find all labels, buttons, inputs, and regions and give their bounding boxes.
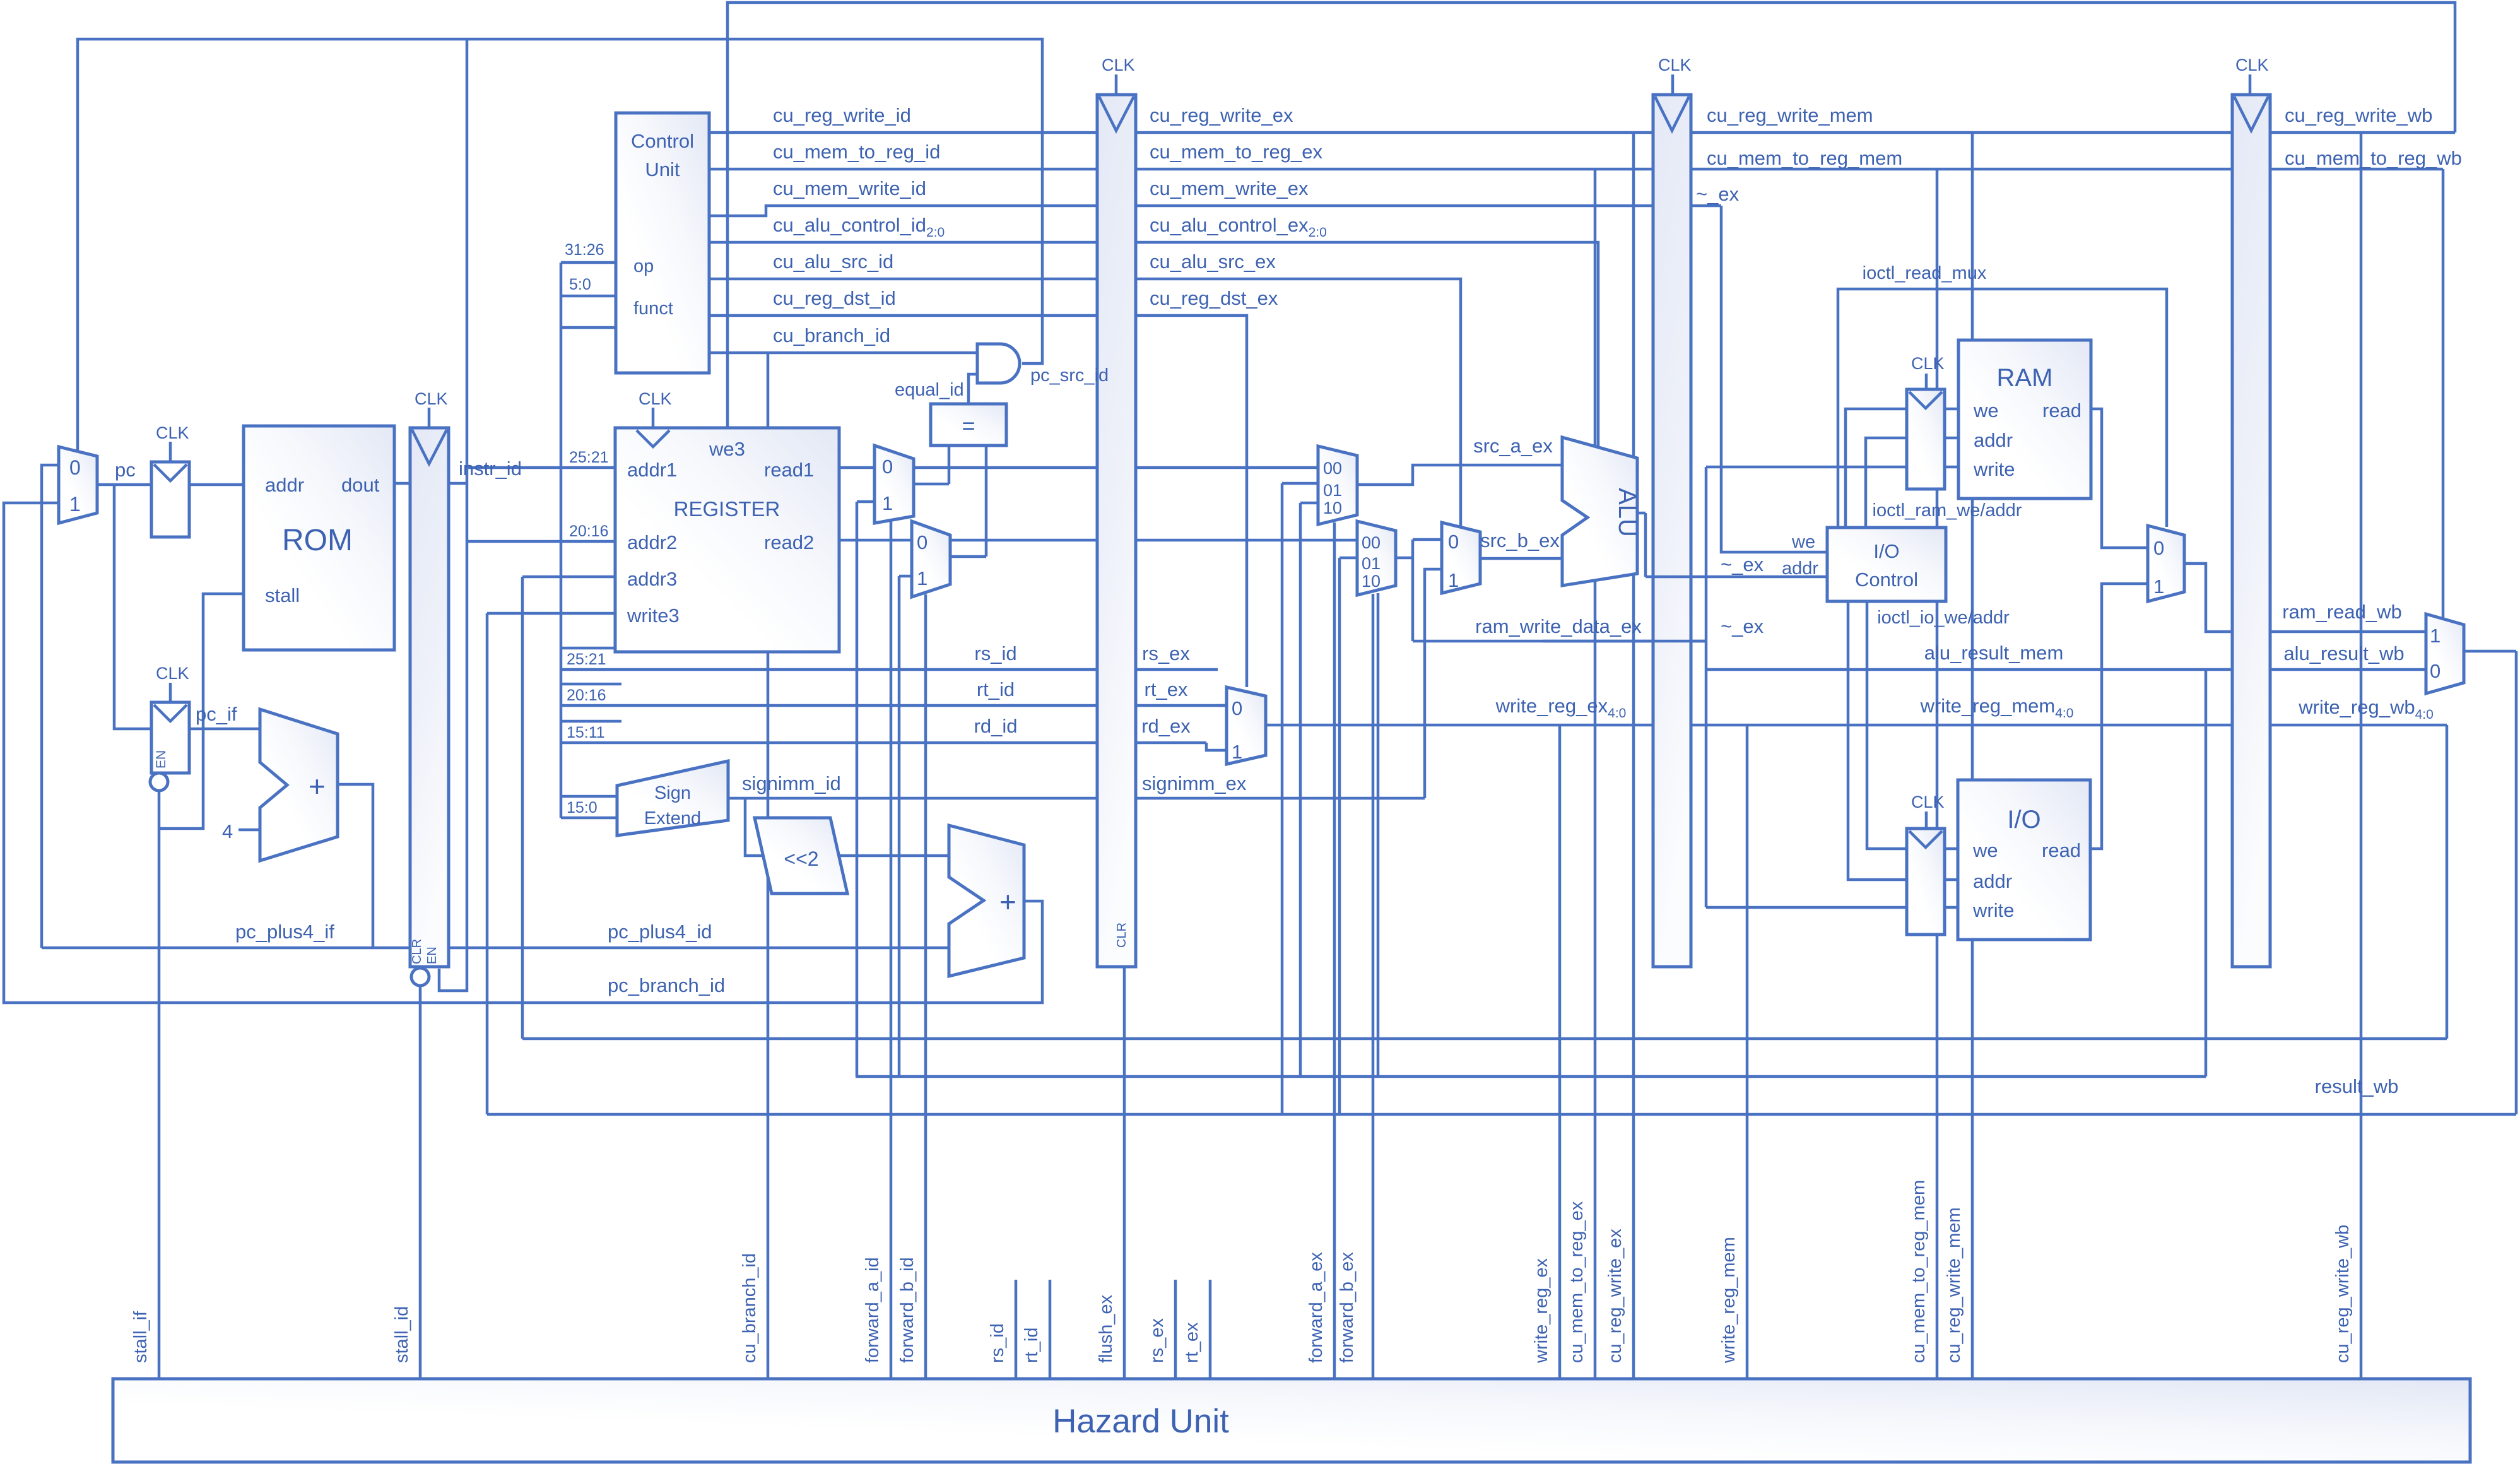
shift left 2 (755, 818, 847, 894)
svg-text:read: read (2042, 839, 2081, 861)
svg-text:Extend: Extend (644, 808, 701, 829)
svg-text:Sign: Sign (654, 783, 691, 803)
svg-text:cu_alu_control_ex2:0: cu_alu_control_ex2:0 (1150, 214, 1327, 240)
svg-text:alu_result_wb: alu_result_wb (2283, 642, 2404, 664)
svg-text:15:11: 15:11 (567, 724, 605, 741)
wire fwd mux A input 10 riser (1300, 503, 1318, 1077)
svg-text:ioctl_io_we/addr: ioctl_io_we/addr (1877, 608, 2010, 628)
wire ioctl mux output to MEM/WB (2184, 563, 2232, 632)
svg-text:forward_b_ex: forward_b_ex (1337, 1252, 1357, 1363)
svg-text:rd_id: rd_id (974, 715, 1018, 737)
ioctl read mux (2148, 526, 2184, 601)
wire I/O read to ioctl mux 1 (2090, 584, 2148, 849)
svg-text:CLK: CLK (1911, 793, 1945, 811)
wire cu_mem_write_mem drop to I/O Control we (1721, 206, 1827, 552)
svg-text:CLK: CLK (2235, 56, 2269, 74)
svg-text:rt_id: rt_id (1022, 1328, 1042, 1363)
I/O (1958, 780, 2090, 940)
svg-text:01: 01 (1362, 554, 1381, 573)
svg-text:RAM: RAM (1997, 364, 2053, 392)
wire write3 stub and result_wb riser (487, 613, 615, 1114)
svg-text:we: we (1972, 839, 1998, 861)
wire addr3 stub and write_reg_wb riser (522, 577, 615, 1039)
wire src_b row (mux2 out to fwd mux B) (950, 539, 1357, 542)
wire shift left 2 output to branch adder (839, 854, 949, 858)
svg-text:pc_plus4_id: pc_plus4_id (608, 921, 712, 943)
svg-text:addr2: addr2 (627, 531, 677, 553)
wire instr bus riser / pc_src to IF/ID CLR (439, 39, 467, 991)
svg-text:4: 4 (222, 820, 233, 842)
ROM (244, 426, 394, 650)
svg-text:cu_reg_write_wb: cu_reg_write_wb (2333, 1225, 2353, 1363)
wire cu_mem_to_reg row (709, 168, 2443, 171)
wire cu_reg_write row (id/ex/mem/wb) (709, 131, 2455, 134)
svg-text:result_wb: result_wb (2315, 1075, 2399, 1097)
svg-text:1: 1 (917, 567, 927, 589)
svg-text:EN: EN (154, 750, 168, 769)
wire cu_reg_write_wb loop to we3 (727, 3, 2455, 428)
svg-text:stall: stall (265, 584, 300, 606)
id forward mux 1 (874, 445, 914, 523)
wire rs_id hazard stub (1015, 1280, 1018, 1379)
wire bitfield column (560, 263, 563, 818)
wire forward_b_ex select riser (1372, 594, 1375, 1379)
svg-text:src_a_ex: src_a_ex (1473, 435, 1553, 457)
svg-text:pc_src_id: pc_src_id (1030, 365, 1109, 386)
svg-text:write: write (1972, 899, 2014, 921)
svg-text:cu_reg_write_ex: cu_reg_write_ex (1150, 104, 1293, 126)
svg-text:read2: read2 (764, 531, 814, 553)
ex forward mux A (1318, 446, 1357, 524)
wire funct tap 5:0 (561, 296, 616, 327)
svg-text:cu_mem_to_reg_ex: cu_mem_to_reg_ex (1150, 141, 1322, 163)
pc_if register (150, 664, 189, 791)
svg-text:rt_id: rt_id (977, 678, 1015, 700)
wire ioctl io addr (1848, 601, 1958, 880)
svg-text:cu_mem_to_reg_mem: cu_mem_to_reg_mem (1707, 147, 1902, 169)
svg-text:stall_if: stall_if (131, 1311, 151, 1363)
wire read1 to id fwd mux1 (839, 466, 874, 469)
svg-text:Control: Control (1855, 569, 1918, 591)
svg-text:I/O: I/O (1873, 540, 1899, 562)
wire write_reg_ex/mem row (1266, 724, 2232, 727)
wire cu_alu_src row (709, 279, 1461, 527)
svg-text:rs_ex: rs_ex (1142, 642, 1190, 664)
wire rt_id row (561, 684, 1227, 705)
wire pc net (97, 483, 244, 487)
pipeline register MEM/WB (2232, 95, 2270, 967)
svg-text:forward_a_ex: forward_a_ex (1306, 1252, 1326, 1363)
svg-text:rs_id: rs_id (974, 642, 1016, 664)
svg-text:cu_branch_id: cu_branch_id (773, 324, 890, 346)
wire id mux1 input1 riser (857, 502, 874, 1077)
wire pc+4 adder output / pc_plus4_if row (42, 784, 410, 948)
svg-text:ioctl_ram_we/addr: ioctl_ram_we/addr (1873, 500, 2022, 521)
wire alu_result_mem feedback row (856, 1075, 2206, 1078)
svg-text:=: = (962, 413, 975, 439)
svg-text:20:16: 20:16 (569, 522, 609, 540)
wire cu_reg_write_ex riser to hazard (1632, 133, 1635, 1379)
wire equal_id to AND gate (969, 374, 977, 404)
wire pc tap to pc_if register (114, 485, 151, 729)
wire 15:0 tap to sign extend (561, 796, 621, 818)
wire ram_write_data row through EX/MEM (1543, 640, 1706, 643)
wire pc_plus4_if riser to pc mux 0 (42, 465, 59, 948)
wire cu_mem_write row (709, 206, 1721, 216)
svg-text:rs_id: rs_id (987, 1323, 1008, 1363)
wire alu_result_mem row (1706, 668, 2232, 671)
svg-text:CLR: CLR (410, 939, 424, 964)
AND gate pc_src (977, 344, 1020, 383)
wire ALU output corner (1637, 513, 1646, 577)
wire signimm row (728, 797, 1425, 800)
wire cu_branch row (709, 351, 977, 355)
svg-text:00: 00 (1362, 533, 1381, 552)
svg-text:pc_if: pc_if (196, 703, 237, 725)
svg-text:signimm_ex: signimm_ex (1142, 772, 1247, 794)
svg-text:25:21: 25:21 (567, 651, 606, 668)
svg-text:addr: addr (1782, 558, 1818, 579)
svg-text:write: write (1973, 458, 2015, 480)
svg-text:REGISTER: REGISTER (674, 497, 780, 521)
svg-text:cu_mem_write_id: cu_mem_write_id (773, 177, 926, 199)
svg-text:cu_mem_to_reg_id: cu_mem_to_reg_id (773, 141, 940, 163)
svg-text:alu_result_mem: alu_result_mem (1924, 642, 2064, 664)
src_b mux (1442, 522, 1480, 593)
wire cu_mem_to_reg_mem riser to hazard (1936, 169, 1939, 1379)
wire write_reg_wb row and drop (2270, 725, 2447, 1039)
wire mux1 tap to equality (914, 445, 949, 484)
pc mux (59, 447, 97, 523)
svg-text:~_ex: ~_ex (1696, 183, 1740, 205)
svg-text:funct: funct (633, 298, 673, 319)
svg-text:read1: read1 (764, 459, 814, 481)
svg-text:write_reg_ex: write_reg_ex (1531, 1258, 1551, 1364)
wire id mux2 input1 riser (899, 576, 912, 1077)
wire write_reg_ex riser to hazard (1558, 725, 1562, 1379)
svg-text:CLK: CLK (1658, 56, 1692, 74)
svg-text:equal_id: equal_id (895, 380, 964, 400)
equality comparator (931, 404, 1006, 445)
svg-text:op: op (633, 256, 654, 276)
svg-text:rs_ex: rs_ex (1147, 1318, 1167, 1363)
svg-text:write_reg_ex4:0: write_reg_ex4:0 (1495, 695, 1627, 721)
svg-text:0: 0 (2430, 660, 2441, 682)
svg-text:we: we (1791, 532, 1815, 552)
svg-text:cu_reg_dst_ex: cu_reg_dst_ex (1150, 287, 1278, 309)
svg-text:src_b_ex: src_b_ex (1480, 529, 1560, 552)
wire fwd mux A output to ALU src a (1357, 465, 1562, 485)
svg-text:1: 1 (2430, 625, 2441, 647)
wire cu_reg_write_wb riser to hazard (2360, 133, 2363, 1379)
wire write_reg_wb feedback row (522, 1037, 2447, 1041)
wire cu_mem_to_reg_wb drop to result mux select (2442, 169, 2445, 619)
pc+4 adder (260, 709, 338, 861)
svg-text:CLK: CLK (639, 389, 672, 408)
svg-text:stall_id: stall_id (392, 1306, 412, 1363)
svg-text:write_reg_mem4:0: write_reg_mem4:0 (1920, 695, 2074, 721)
Sign Extend (617, 761, 728, 835)
svg-text:cu_mem_to_reg_wb: cu_mem_to_reg_wb (2285, 147, 2462, 169)
svg-text:cu_branch_id: cu_branch_id (739, 1253, 760, 1363)
wire fwd mux A input 01 riser (1282, 483, 1318, 1114)
svg-text:addr: addr (1974, 429, 2013, 451)
svg-text:15:0: 15:0 (567, 799, 598, 817)
svg-text:Unit: Unit (645, 158, 680, 180)
wire pc_plus4_id row (449, 947, 949, 950)
svg-text:01: 01 (1323, 481, 1342, 500)
svg-text:cu_reg_write_ex: cu_reg_write_ex (1605, 1229, 1625, 1363)
svg-text:pc_branch_id: pc_branch_id (608, 974, 725, 996)
wire ioctl ram we (1846, 409, 1958, 528)
wire fwd mux B input 10 riser (1377, 593, 1380, 1077)
svg-text:0: 0 (917, 531, 927, 553)
wire forward_b_id select riser (924, 594, 927, 1379)
wire read2 to id fwd mux2 (839, 539, 912, 542)
wire cu_reg_dst row (709, 316, 1247, 687)
svg-text:rt_ex: rt_ex (1145, 678, 1188, 700)
wire alu_result_mem feedback tap (2205, 670, 2208, 1077)
wire write_reg_mem riser to hazard (1746, 725, 1749, 1379)
svg-text:addr3: addr3 (627, 568, 677, 590)
wire signimm tap to shift left 2 (745, 798, 765, 856)
wire result_wb feedback row (487, 1113, 2516, 1116)
svg-text:forward_b_id: forward_b_id (897, 1257, 917, 1363)
svg-text:0: 0 (69, 456, 81, 479)
wire ioctl ram addr (1866, 438, 1958, 528)
svg-text:1: 1 (882, 492, 893, 514)
svg-text:flush_ex: flush_ex (1096, 1294, 1116, 1363)
svg-text:forward_a_id: forward_a_id (863, 1257, 883, 1363)
wire forward_a_id select riser (890, 521, 893, 1379)
svg-text:ram_write_data_ex: ram_write_data_ex (1475, 615, 1642, 637)
svg-text:Control: Control (631, 130, 694, 152)
ALU (1562, 437, 1641, 586)
svg-text:cu_reg_write_mem: cu_reg_write_mem (1944, 1207, 1964, 1363)
svg-text:1: 1 (2153, 575, 2164, 598)
wire constant 4 stub (238, 829, 260, 832)
svg-text:cu_mem_to_reg_ex: cu_mem_to_reg_ex (1567, 1201, 1587, 1363)
I/O clk register (1907, 793, 1945, 935)
svg-text:0: 0 (882, 456, 893, 478)
svg-text:EN: EN (425, 947, 439, 964)
RAM clk register (1907, 354, 1945, 489)
wire cu_mem_to_reg_ex riser to hazard (1594, 169, 1597, 1379)
svg-text:00: 00 (1323, 459, 1342, 478)
wire cu_branch_id riser to hazard (767, 353, 770, 1379)
wire rt_ex hazard stub (1209, 1280, 1212, 1379)
wire src_b mux output to ALU (1480, 557, 1562, 560)
wire addr2 tap 20:16 (467, 540, 615, 543)
svg-text:10: 10 (1362, 572, 1381, 591)
svg-text:I/O: I/O (2007, 806, 2040, 834)
svg-text:pc_plus4_if: pc_plus4_if (235, 921, 334, 943)
wire ioctl io we (1867, 601, 1958, 849)
svg-text:CLK: CLK (1911, 354, 1945, 373)
wire op tap 31:26 (561, 261, 616, 264)
svg-text:5:0: 5:0 (569, 276, 591, 293)
wire branch adder output / pc_branch_id loop (4, 503, 1042, 1003)
rt/rd mux (1227, 687, 1266, 764)
wire RAM read to ioctl mux 0 (2091, 409, 2148, 548)
wire stall_id riser (419, 986, 422, 1379)
id forward mux 2 (912, 521, 950, 597)
svg-text:write3: write3 (627, 605, 680, 627)
svg-text:Hazard Unit: Hazard Unit (1052, 1403, 1229, 1440)
wire alu_result_wb row (2270, 668, 2426, 671)
svg-text:cu_reg_write_wb: cu_reg_write_wb (2285, 104, 2432, 126)
wire rs_id row (561, 648, 1218, 670)
wire rd_id row (561, 721, 1227, 750)
svg-text:CLK: CLK (1102, 56, 1135, 74)
wire rt_id hazard stub (1049, 1280, 1052, 1379)
svg-text:cu_mem_write_ex: cu_mem_write_ex (1150, 177, 1309, 199)
wire result mux output drop (2464, 651, 2516, 1114)
svg-text:ram_read_wb: ram_read_wb (2282, 601, 2402, 623)
wire ram/io write data bus (1706, 467, 1958, 907)
svg-text:dout: dout (341, 474, 380, 496)
svg-text:addr: addr (265, 474, 304, 496)
wire ram_write_data row (1413, 640, 1706, 643)
svg-text:cu_mem_to_reg_mem: cu_mem_to_reg_mem (1909, 1180, 1929, 1363)
svg-text:0: 0 (1232, 697, 1242, 719)
svg-text:0: 0 (2153, 537, 2164, 559)
wire ram_read_wb row (2270, 630, 2426, 634)
Hazard Unit (113, 1379, 2470, 1462)
svg-text:CLK: CLK (156, 423, 189, 442)
pipeline register EX/MEM (1653, 95, 1691, 967)
svg-text:cu_reg_write_mem: cu_reg_write_mem (1707, 104, 1873, 126)
wire pc_if to adder (189, 728, 260, 731)
svg-text:we3: we3 (709, 438, 745, 460)
svg-text:1: 1 (1448, 569, 1459, 591)
svg-text:CLK: CLK (415, 389, 448, 408)
svg-text:cu_alu_control_id2:0: cu_alu_control_id2:0 (773, 214, 945, 240)
svg-text:cu_reg_dst_id: cu_reg_dst_id (773, 287, 896, 309)
svg-text:cu_alu_src_ex: cu_alu_src_ex (1150, 251, 1276, 273)
ex forward mux B (1357, 521, 1396, 595)
wire cu_reg_write_mem riser to hazard (1971, 133, 1974, 1379)
svg-text:1: 1 (1232, 741, 1242, 763)
svg-text:+: + (309, 770, 326, 803)
svg-text:rd_ex: rd_ex (1141, 715, 1191, 737)
wire src_a row (mux1 out to fwd mux A) (914, 466, 1318, 469)
svg-text:ioctl_read_mux: ioctl_read_mux (1863, 263, 1987, 283)
wire rs_ex hazard stub (1174, 1280, 1177, 1379)
wire flush_ex riser (1123, 967, 1126, 1379)
svg-text:~_ex: ~_ex (1721, 553, 1764, 575)
branch adder (949, 825, 1024, 976)
wire rt_ex into rt/rd mux 0 (1218, 704, 1227, 707)
wire forward_a_ex select riser (1333, 522, 1336, 1379)
svg-text:CLK: CLK (156, 664, 189, 683)
wire cu_alu_control row (709, 242, 1598, 447)
wire signimm_ex riser to src_b mux 1 (1425, 569, 1442, 798)
pipeline register IF/ID (410, 428, 449, 986)
svg-text:cu_reg_write_id: cu_reg_write_id (773, 104, 911, 126)
result wb mux (2426, 614, 2464, 693)
wire mux2 tap to equality (950, 445, 986, 557)
REGISTER (615, 389, 839, 652)
svg-text:signimm_id: signimm_id (742, 772, 841, 794)
svg-text:addr: addr (1973, 870, 2012, 892)
pipeline register ID/EX (1097, 95, 1136, 967)
svg-text:1: 1 (69, 493, 81, 516)
svg-text:10: 10 (1323, 499, 1342, 517)
svg-text:+: + (999, 885, 1016, 918)
svg-text:ROM: ROM (282, 524, 353, 557)
Control Unit (616, 113, 709, 373)
svg-text:~_ex: ~_ex (1721, 615, 1764, 637)
svg-text:31:26: 31:26 (565, 241, 604, 259)
svg-text:25:21: 25:21 (569, 449, 609, 466)
wire ioctl_read_mux select loop (1838, 289, 2167, 528)
svg-text:instr_id: instr_id (459, 457, 522, 480)
I/O Control (1827, 528, 1946, 601)
svg-text:pc: pc (115, 459, 136, 481)
svg-text:addr1: addr1 (627, 459, 677, 481)
svg-text:CLR: CLR (1115, 923, 1129, 948)
svg-text:<<2: <<2 (784, 847, 818, 870)
wire ROM stall net (159, 594, 244, 829)
pc register (151, 423, 189, 537)
svg-text:write_reg_wb4:0: write_reg_wb4:0 (2298, 696, 2434, 722)
wire fwd mux B output (1396, 540, 1442, 641)
svg-text:we: we (1973, 399, 1999, 422)
svg-text:write_reg_mem: write_reg_mem (1719, 1237, 1739, 1364)
wire alu/addr row through EX/MEM (1646, 575, 1827, 579)
svg-text:rt_ex: rt_ex (1182, 1322, 1202, 1363)
wire stall_if riser (158, 789, 161, 1379)
svg-text:cu_alu_src_id: cu_alu_src_id (773, 251, 893, 273)
wire fwd mux B input 01 riser (1339, 558, 1357, 1114)
svg-text:ALU: ALU (1613, 488, 1641, 537)
svg-text:read: read (2042, 399, 2081, 422)
wire ROM dout to IF/ID (394, 482, 410, 485)
CLK labels pipeline registers (415, 56, 2269, 428)
svg-text:0: 0 (1448, 531, 1459, 553)
wire addr1 tap 25:21 (467, 466, 615, 469)
wire instr_id (449, 482, 467, 485)
RAM (1958, 340, 2091, 499)
svg-text:20:16: 20:16 (567, 687, 606, 704)
wire pc_src_id (AND output to pc mux select) (78, 39, 1042, 451)
